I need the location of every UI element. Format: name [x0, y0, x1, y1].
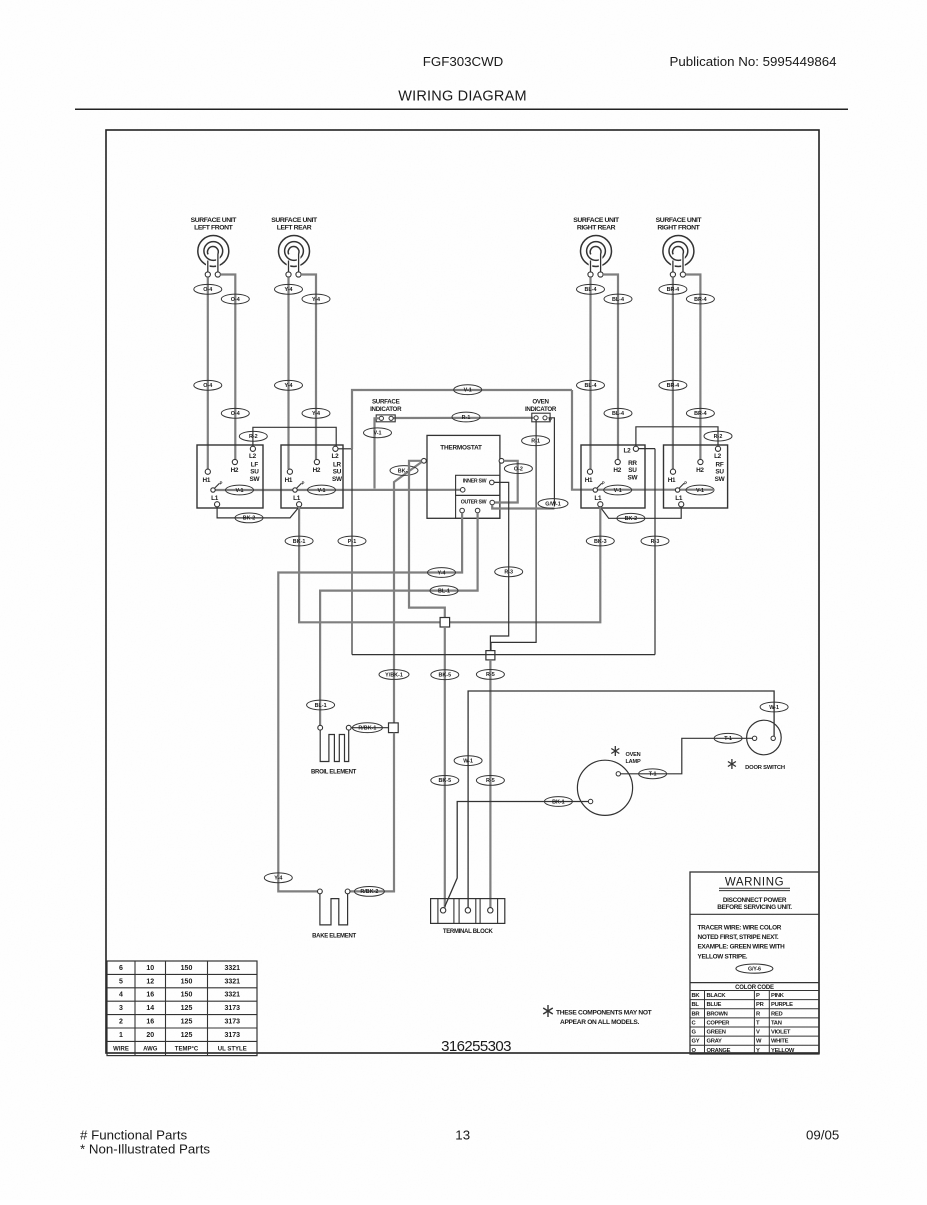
svg-text:O-4: O-4 [203, 287, 212, 293]
wire label R-3 inner [495, 567, 523, 577]
svg-text:V-1: V-1 [235, 488, 243, 494]
svg-text:TERMINAL BLOCK: TERMINAL BLOCK [443, 929, 494, 935]
oven lamp asterisk [614, 746, 616, 756]
wire W-1 run to door switch [468, 691, 774, 908]
terminal H1 [205, 469, 210, 474]
svg-text:20: 20 [146, 1032, 154, 1039]
wire P-1 vertical drop to junction line [351, 449, 353, 655]
wire label BK-1 lamp [544, 797, 572, 807]
wire label G/Y-6 example [736, 964, 773, 973]
wire label R/BK-2 [354, 887, 384, 897]
svg-text:R-3: R-3 [651, 539, 660, 545]
terminal H1 [670, 469, 675, 474]
wire label BL-4 upper left [577, 284, 605, 294]
svg-text:W: W [756, 1039, 762, 1045]
wire BL-4 left lead down to H1 [589, 277, 591, 469]
svg-text:125: 125 [181, 1019, 193, 1026]
svg-text:16: 16 [146, 1019, 154, 1026]
svg-text:V-1: V-1 [317, 488, 325, 494]
svg-text:BROWN: BROWN [707, 1011, 728, 1017]
surface unit left rear terminals [286, 272, 291, 277]
wire junction line through J2 [352, 654, 655, 656]
svg-text:Y-4: Y-4 [284, 383, 292, 389]
surface unit right front coil element [663, 236, 694, 267]
wire label BK-2 thermostat [390, 466, 418, 476]
wire label R-3 [641, 536, 669, 546]
wire L2 RR stub to R-3 drop [639, 448, 656, 450]
svg-text:THERMOSTAT: THERMOSTAT [440, 445, 482, 452]
wire label BK-3 [586, 536, 614, 546]
svg-text:3321: 3321 [224, 978, 240, 985]
svg-text:3321: 3321 [224, 992, 240, 999]
wire Y-4 left lead down to H1 [287, 277, 289, 469]
svg-text:BK: BK [692, 993, 701, 999]
thermostat right terminal [499, 458, 504, 463]
surface unit left front coil element [198, 236, 229, 267]
svg-text:10: 10 [146, 965, 154, 972]
svg-text:# Functional Parts: # Functional Parts [80, 1128, 188, 1143]
svg-text:RR: RR [628, 460, 637, 467]
bake element terminals [318, 889, 323, 894]
wire label BR-4 upper right [686, 294, 714, 304]
wire BK-5 thermostat feed down to junction [409, 461, 445, 618]
door switch asterisk [731, 759, 733, 769]
wire BK-5 from junction J1 to terminal block [444, 627, 446, 908]
svg-text:SU: SU [333, 469, 342, 476]
svg-text:BAKE ELEMENT: BAKE ELEMENT [312, 934, 356, 940]
svg-text:O-2: O-2 [514, 466, 523, 472]
svg-text:V-1: V-1 [614, 488, 622, 494]
wire BR-4 right lead jog down to H2 [686, 275, 701, 460]
svg-text:LAMP: LAMP [625, 759, 641, 765]
terminal H2 [698, 459, 703, 464]
terminal L1 [297, 502, 302, 507]
switch box RF SU SW [664, 445, 728, 508]
wire R-3 inner switch to junction [490, 482, 508, 650]
svg-text:H1: H1 [668, 477, 676, 484]
svg-text:EXAMPLE: GREEN WIRE WITH: EXAMPLE: GREEN WIRE WITH [698, 944, 786, 951]
svg-text:P: P [684, 481, 687, 486]
switch box LF SU SW [197, 445, 263, 508]
svg-text:VIOLET: VIOLET [771, 1030, 791, 1036]
svg-text:RIGHT FRONT: RIGHT FRONT [657, 225, 700, 232]
svg-text:BR-4: BR-4 [694, 297, 707, 303]
svg-text:LF: LF [251, 462, 259, 469]
svg-text:BL-4: BL-4 [585, 383, 597, 389]
svg-text:OVEN: OVEN [532, 399, 549, 406]
switch pivot P [211, 488, 215, 492]
outer switch box [456, 495, 500, 518]
wire label BR-4 upper left [659, 284, 687, 294]
wire label O-4 lower left [194, 380, 222, 390]
svg-text:14: 14 [146, 1005, 154, 1012]
wire BK-2 L1 RR to L1 RF [600, 507, 681, 518]
wire label W-1 right [760, 702, 788, 712]
svg-text:125: 125 [181, 1005, 193, 1012]
svg-text:G/Y-6: G/Y-6 [748, 967, 761, 973]
wire label BL-4 upper right [604, 294, 632, 304]
svg-text:H2: H2 [696, 467, 704, 474]
svg-text:G/W-1: G/W-1 [545, 501, 560, 507]
wire label T-1 right [714, 733, 742, 743]
wire label R/BK-1 [351, 727, 388, 729]
svg-text:SW: SW [715, 476, 726, 483]
wire BK-1 oven lamp to terminal block [445, 802, 589, 907]
svg-text:150: 150 [181, 992, 193, 999]
svg-text:INNER SW: INNER SW [463, 479, 487, 485]
svg-text:316255303: 316255303 [441, 1038, 511, 1055]
svg-text:L1: L1 [293, 495, 301, 502]
wire R-5 from junction J2 to terminal block [489, 660, 491, 908]
door switch [747, 720, 782, 755]
svg-text:WARNING: WARNING [725, 877, 784, 889]
svg-text:16: 16 [146, 992, 154, 999]
svg-text:BK-3: BK-3 [594, 539, 607, 545]
wire V-1 top run to surface units area [352, 390, 572, 449]
svg-text:3173: 3173 [224, 1005, 240, 1012]
wire label W-1 left [454, 756, 482, 766]
bake element [320, 894, 348, 925]
svg-text:BL-4: BL-4 [612, 411, 624, 417]
svg-text:* Non-Illustrated Parts: * Non-Illustrated Parts [80, 1142, 210, 1157]
svg-text:O-4: O-4 [203, 383, 212, 389]
svg-text:P: P [302, 481, 305, 486]
svg-text:GRAY: GRAY [707, 1039, 722, 1045]
svg-text:12: 12 [146, 978, 154, 985]
terminal H1 [287, 469, 292, 474]
wire label V-1 top [454, 385, 482, 395]
junction square J2 [486, 651, 495, 660]
broil element [320, 730, 349, 761]
svg-text:R-1: R-1 [462, 415, 471, 421]
wire label Y-4 lower [264, 873, 292, 883]
wire label R-2 left [239, 431, 267, 441]
wire BL-1 outer switch to broil element [320, 513, 478, 726]
svg-text:R-5: R-5 [486, 672, 495, 678]
inner switch box [456, 475, 500, 495]
terminal H2 [615, 459, 620, 464]
svg-text:H2: H2 [313, 467, 321, 474]
svg-text:OVEN: OVEN [625, 752, 640, 758]
svg-text:OUTER SW: OUTER SW [461, 500, 487, 506]
wire label BK-5 lower [431, 776, 459, 786]
svg-text:TAN: TAN [771, 1020, 782, 1026]
svg-text:SURFACE UNIT: SURFACE UNIT [656, 217, 703, 224]
svg-text:SURFACE: SURFACE [372, 399, 400, 406]
wire label R-1 top [452, 412, 480, 422]
wire label R-5 lower [476, 776, 504, 786]
title underline rule [75, 108, 848, 110]
terminal L1 [679, 502, 684, 507]
wire label O-4 upper right [221, 294, 249, 304]
svg-text:R-5: R-5 [486, 778, 495, 784]
wire gauge table [107, 961, 257, 1056]
svg-text:H2: H2 [613, 467, 621, 474]
svg-text:L1: L1 [211, 495, 219, 502]
wire label O-4 upper left [194, 284, 222, 294]
svg-text:RIGHT REAR: RIGHT REAR [577, 225, 616, 232]
svg-text:Y-4: Y-4 [437, 570, 445, 576]
svg-text:P: P [220, 481, 223, 486]
wire label Y-4 upper right [302, 294, 330, 304]
svg-text:PINK: PINK [771, 993, 785, 999]
wire label V-1 [604, 485, 632, 495]
wire label O-2 [504, 464, 532, 474]
svg-text:4: 4 [119, 992, 123, 999]
svg-text:NOTED FIRST, STRIPE NEXT.: NOTED FIRST, STRIPE NEXT. [698, 934, 779, 941]
svg-text:R-2: R-2 [249, 434, 258, 440]
surface unit right rear terminals [588, 272, 593, 277]
svg-text:BROIL ELEMENT: BROIL ELEMENT [311, 770, 357, 776]
svg-text:O-4: O-4 [231, 411, 240, 417]
svg-text:P: P [602, 481, 605, 486]
terminal L1 [215, 502, 220, 507]
svg-text:DISCONNECT POWER: DISCONNECT POWER [723, 897, 787, 904]
svg-text:SW: SW [628, 474, 639, 481]
svg-text:BR-4: BR-4 [667, 383, 680, 389]
svg-text:WIRING DIAGRAM: WIRING DIAGRAM [398, 89, 526, 105]
svg-text:Y/BK-1: Y/BK-1 [385, 672, 403, 678]
svg-text:V-1: V-1 [464, 388, 472, 394]
wire R-1 surface indicator to oven indicator [393, 417, 533, 419]
svg-text:WHITE: WHITE [771, 1039, 789, 1045]
svg-text:BLACK: BLACK [707, 993, 727, 999]
svg-text:SU: SU [715, 469, 724, 476]
terminal H2 [314, 459, 319, 464]
svg-text:BK-1: BK-1 [552, 799, 565, 805]
svg-text:SU: SU [628, 467, 637, 474]
wire label BK-2 right [617, 513, 645, 523]
wire G/W-1 outer switch to oven indicator D [492, 505, 554, 509]
wire label R-2 right [704, 431, 732, 441]
svg-text:R/BK-1: R/BK-1 [358, 726, 376, 732]
wire R-1 drop from oven indicator to junction [491, 420, 536, 651]
svg-text:Y-4: Y-4 [284, 287, 292, 293]
surface unit right front terminals [670, 272, 675, 277]
wire O-4 left lead down to H1 [207, 277, 209, 469]
wire label BL-1 mid [430, 586, 458, 596]
wire label BL-1 lower [307, 700, 335, 710]
svg-text:BK-5: BK-5 [439, 673, 452, 679]
terminal L1 [598, 502, 603, 507]
svg-text:R/BK-2: R/BK-2 [360, 889, 378, 895]
svg-text:150: 150 [181, 965, 193, 972]
wire label V-1 [226, 485, 254, 495]
svg-text:L2: L2 [623, 448, 631, 455]
diagram border frame [106, 130, 819, 1053]
svg-text:YELLOW STRIPE.: YELLOW STRIPE. [698, 953, 748, 960]
svg-text:T-1: T-1 [649, 772, 657, 778]
svg-text:PURPLE: PURPLE [771, 1002, 793, 1008]
svg-text:THESE COMPONENTS MAY NOT: THESE COMPONENTS MAY NOT [556, 1010, 652, 1017]
thermostat left terminal [422, 458, 427, 463]
surface unit left rear coil element [279, 236, 310, 267]
wire label BL-4 lower right [604, 408, 632, 418]
svg-text:H1: H1 [285, 477, 293, 484]
terminal L2 [633, 446, 638, 451]
svg-text:BEFORE SERVICING UNIT.: BEFORE SERVICING UNIT. [717, 904, 792, 911]
wire BK-1 bus from L1 LR down across to L1 RR [299, 507, 600, 622]
svg-text:SURFACE UNIT: SURFACE UNIT [573, 217, 620, 224]
wire label R-5 upper [476, 670, 504, 680]
thermostat box [427, 435, 500, 518]
svg-text:L1: L1 [594, 495, 602, 502]
svg-text:YELLOW: YELLOW [771, 1048, 795, 1054]
svg-text:BLUE: BLUE [707, 1002, 722, 1008]
wire T-1 door switch to oven lamp [621, 738, 753, 774]
svg-text:SU: SU [250, 469, 259, 476]
svg-text:5: 5 [119, 978, 123, 985]
junction square J3 broil [389, 723, 399, 733]
wire label V-1 below surface indicator [364, 428, 392, 438]
svg-text:GREEN: GREEN [707, 1030, 726, 1036]
wire BL-4 right lead jog down to H2 [603, 275, 618, 460]
wire BK-2 L1 LF to L1 LR [217, 507, 299, 518]
svg-text:Y-4: Y-4 [312, 411, 320, 417]
svg-text:BL: BL [692, 1002, 700, 1008]
wire label T-1 left [639, 769, 667, 779]
svg-text:W-1: W-1 [463, 758, 473, 764]
svg-text:GY: GY [692, 1039, 700, 1045]
wire label BR-4 lower right [686, 408, 714, 418]
svg-text:125: 125 [181, 1032, 193, 1039]
wire R-3 vertical drop to junction line [654, 449, 656, 655]
svg-text:V-1: V-1 [373, 431, 381, 437]
wire label BK-2 left [235, 513, 263, 523]
svg-text:BK-5: BK-5 [439, 778, 452, 784]
warning box [690, 872, 819, 1054]
svg-text:DOOR SWITCH: DOOR SWITCH [745, 765, 785, 771]
svg-text:150: 150 [181, 978, 193, 985]
svg-text:13: 13 [455, 1128, 470, 1143]
wire BR-4 left lead down to H1 [672, 277, 674, 469]
svg-text:APPEAR ON ALL MODELS.: APPEAR ON ALL MODELS. [560, 1019, 640, 1026]
broil element terminals [318, 725, 323, 730]
svg-text:R-2: R-2 [714, 434, 723, 440]
svg-text:FGF303CWD: FGF303CWD [423, 54, 504, 69]
wire label Y-4 lower right [302, 408, 330, 418]
oven indicator lamp box [532, 413, 550, 422]
svg-text:2: 2 [119, 1019, 123, 1026]
svg-text:SURFACE UNIT: SURFACE UNIT [271, 217, 318, 224]
svg-text:BK-2: BK-2 [243, 516, 256, 522]
svg-text:H1: H1 [203, 477, 211, 484]
wire label BK-1 [285, 536, 313, 546]
svg-text:Y: Y [756, 1048, 760, 1054]
svg-text:BK-1: BK-1 [293, 539, 306, 545]
svg-text:R-3: R-3 [504, 570, 513, 576]
terminal L2 [333, 446, 338, 451]
svg-text:COPPER: COPPER [707, 1020, 731, 1026]
svg-text:3173: 3173 [224, 1032, 240, 1039]
svg-text:SW: SW [332, 476, 343, 483]
svg-text:L2: L2 [249, 453, 257, 460]
wire label G/W-1 [538, 499, 568, 509]
svg-text:BK-2: BK-2 [625, 516, 638, 522]
terminal H1 [587, 469, 592, 474]
outer switch right terminal [490, 500, 495, 505]
terminal block terminals [440, 908, 445, 913]
svg-text:W-1: W-1 [769, 705, 779, 711]
wire V-1 pivot bus left [215, 489, 460, 491]
svg-text:V-1: V-1 [696, 488, 704, 494]
svg-text:BL-1: BL-1 [438, 588, 450, 594]
svg-text:PR: PR [756, 1002, 765, 1008]
svg-text:TRACER WIRE: WIRE COLOR: TRACER WIRE: WIRE COLOR [698, 925, 782, 932]
svg-text:09/05: 09/05 [806, 1128, 839, 1143]
svg-text:3321: 3321 [224, 965, 240, 972]
svg-text:LR: LR [333, 462, 342, 469]
terminal L2 [715, 446, 720, 451]
wire label Y-4 upper left [275, 284, 303, 294]
svg-text:L2: L2 [331, 453, 339, 460]
wire label O-4 lower right [221, 408, 249, 418]
wire label Y-4 lower left [275, 380, 303, 390]
oven lamp [577, 760, 632, 815]
wire Y-4 outer switch to bake element [278, 513, 462, 892]
svg-text:SURFACE UNIT: SURFACE UNIT [191, 217, 238, 224]
svg-text:Publication No: 5995449864: Publication No: 5995449864 [670, 54, 837, 69]
outer switch bottom terminals [460, 508, 465, 513]
wire label Y/BK-1 [379, 670, 409, 680]
svg-text:6: 6 [119, 965, 123, 972]
svg-text:3173: 3173 [224, 1019, 240, 1026]
components note asterisk [547, 1005, 549, 1017]
svg-text:Y-4: Y-4 [274, 876, 282, 882]
svg-text:BR: BR [692, 1011, 701, 1017]
svg-text:1: 1 [119, 1032, 123, 1039]
svg-text:TEMP°C: TEMP°C [175, 1047, 199, 1053]
wire label BL-4 lower left [577, 380, 605, 390]
wire R/BK-2 from J3 down to bake element [350, 733, 394, 892]
svg-text:LEFT FRONT: LEFT FRONT [194, 225, 234, 232]
switch box LR SU SW [281, 445, 343, 508]
svg-text:LEFT REAR: LEFT REAR [277, 225, 312, 232]
svg-text:BR-4: BR-4 [694, 411, 707, 417]
svg-text:BR-4: BR-4 [667, 287, 680, 293]
svg-text:SW: SW [250, 476, 261, 483]
svg-text:ORANGE: ORANGE [707, 1048, 731, 1054]
svg-text:WIRE: WIRE [113, 1047, 129, 1053]
svg-text:INDICATOR: INDICATOR [370, 406, 402, 413]
surface unit left front terminals [205, 272, 210, 277]
svg-text:BL-4: BL-4 [585, 287, 597, 293]
svg-text:P: P [756, 993, 760, 999]
svg-text:O-4: O-4 [231, 297, 240, 303]
switch box RR SU SW [581, 445, 645, 508]
svg-text:BL-4: BL-4 [612, 297, 624, 303]
svg-text:BL-1: BL-1 [315, 703, 327, 709]
wire BK-2 thermostat to broil junction [394, 462, 422, 723]
surface unit right rear coil element [581, 236, 612, 267]
svg-text:V: V [756, 1030, 760, 1036]
wire R-2 right loop L2 RF to L2 RR [636, 427, 718, 446]
wire D from oven indicator down to G/W junction [548, 418, 554, 507]
inner switch terminals [460, 488, 465, 493]
svg-text:Y-4: Y-4 [312, 297, 320, 303]
wire label V-1 [686, 485, 714, 495]
wire V-1 pivot bus right [572, 390, 713, 490]
terminal H2 [232, 459, 237, 464]
junction square J1 [440, 618, 450, 628]
svg-text:UL STYLE: UL STYLE [218, 1047, 247, 1053]
svg-text:L2: L2 [714, 453, 722, 460]
svg-text:3: 3 [119, 1005, 123, 1012]
surface indicator lamp box [376, 415, 395, 422]
wire label Y-4 mid [428, 568, 456, 578]
terminal block box [431, 899, 505, 924]
wire label V-1 [308, 485, 336, 495]
